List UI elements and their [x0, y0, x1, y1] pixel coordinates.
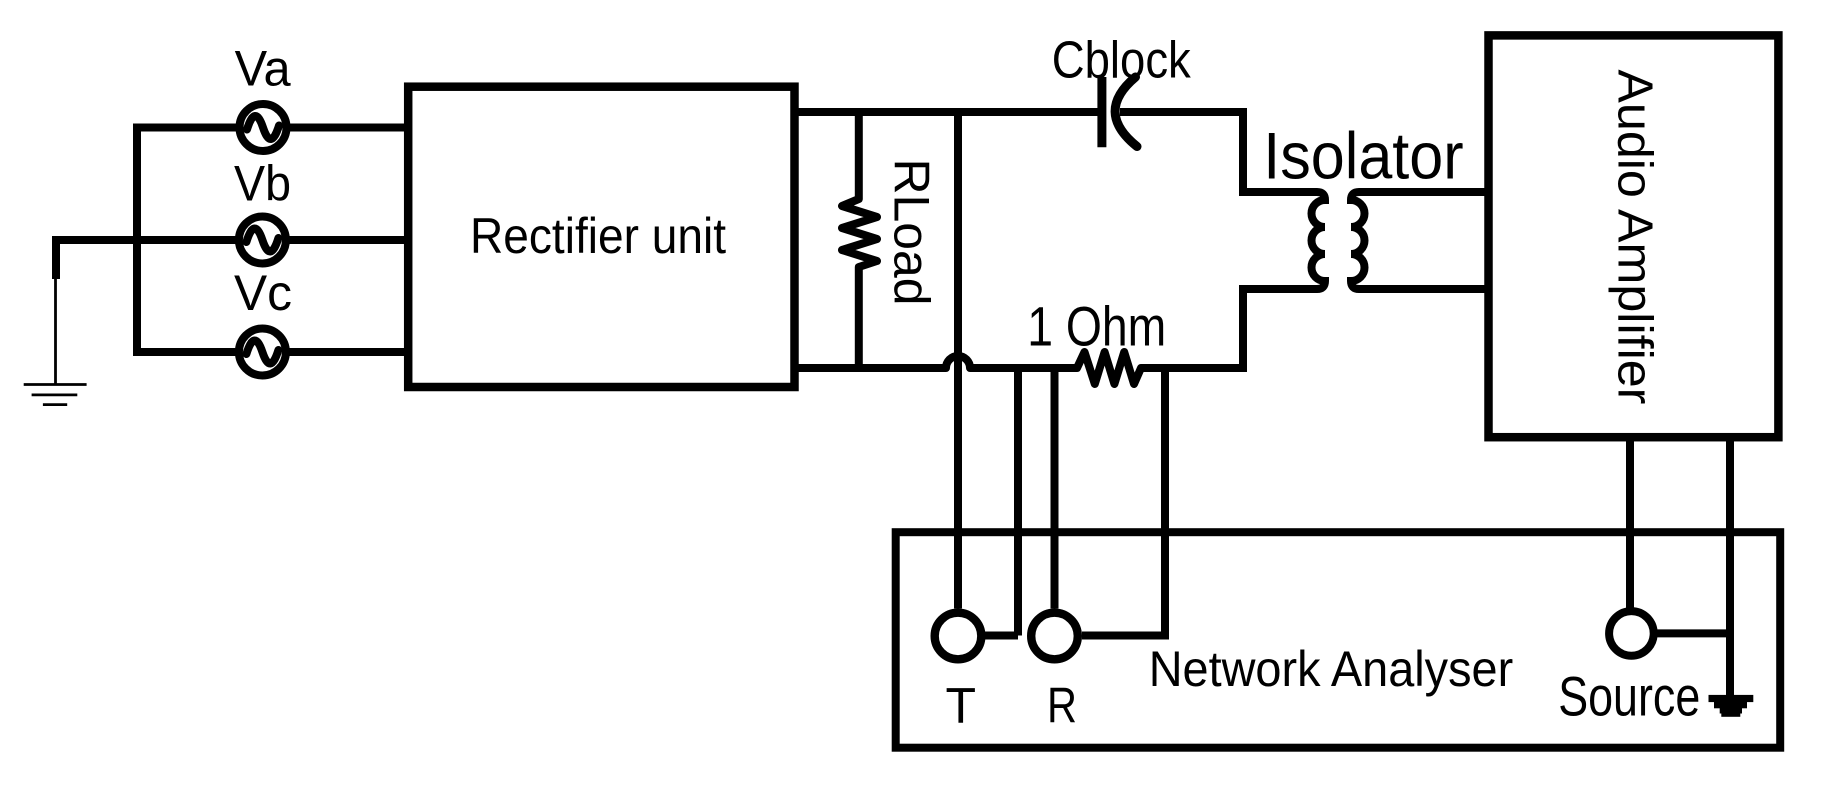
- network analyser box: [896, 532, 1780, 748]
- svg-text:T: T: [946, 678, 977, 734]
- svg-text:RLoad: RLoad: [884, 159, 940, 306]
- wire tap to R top: [1051, 364, 1059, 609]
- svg-text:Network Analyser: Network Analyser: [1149, 640, 1514, 697]
- audio amplifier box: [1489, 35, 1779, 437]
- wire T right: [985, 632, 1018, 640]
- ground GND1: [24, 385, 87, 405]
- svg-text:Cblock: Cblock: [1052, 32, 1192, 90]
- wire ground stub: [52, 237, 60, 279]
- source Vc: [239, 329, 286, 376]
- svg-text:Va: Va: [235, 40, 291, 96]
- capacitor Cblock right plate: [1115, 77, 1137, 147]
- ground GND1 lead: [54, 279, 57, 384]
- wire Va row: [133, 124, 404, 132]
- wire Vc row: [133, 348, 404, 356]
- terminal Source: [1609, 611, 1654, 656]
- resistor RLoad: [842, 112, 877, 368]
- wire cap rail right + step down + transformer primary: [1120, 112, 1325, 372]
- wire top rail left: [794, 108, 1100, 116]
- wire R right: [1082, 632, 1169, 640]
- wire amp to Source: [1626, 437, 1634, 608]
- svg-text:R: R: [1047, 678, 1077, 734]
- svg-text:Audio Amplifier: Audio Amplifier: [1608, 69, 1663, 404]
- svg-text:Isolator: Isolator: [1263, 119, 1463, 192]
- wire bottom rail with hop and resistor 1 Ohm: [794, 352, 1247, 384]
- rectifier unit box: [408, 87, 794, 387]
- sine symbol Vc: [246, 340, 278, 363]
- wire tap right of 1 Ohm to R: [1161, 364, 1169, 636]
- wire Vb row: [52, 236, 404, 244]
- capacitor Cblock left plate: [1097, 77, 1106, 147]
- wire left bus vertical: [133, 124, 141, 357]
- wire Source right: [1655, 629, 1730, 637]
- svg-text:Source: Source: [1558, 666, 1700, 728]
- terminal R: [1031, 613, 1078, 660]
- transformer secondary: [1351, 192, 1489, 289]
- wire tap left of 1 Ohm to T: [1014, 364, 1022, 636]
- ground GND2 (filled): [1709, 695, 1754, 717]
- sine symbol Va: [247, 116, 279, 139]
- node line to T: [954, 112, 962, 609]
- sine symbol Vb: [246, 228, 278, 251]
- source Vb: [239, 217, 286, 264]
- svg-text:Vc: Vc: [234, 265, 292, 321]
- svg-text:1 Ohm: 1 Ohm: [1027, 296, 1166, 358]
- wire amp to ground: [1726, 437, 1734, 695]
- svg-text:Rectifier unit: Rectifier unit: [470, 208, 726, 264]
- svg-text:Vb: Vb: [234, 155, 291, 211]
- source Va: [239, 104, 1654, 659]
- terminal T: [935, 613, 982, 660]
